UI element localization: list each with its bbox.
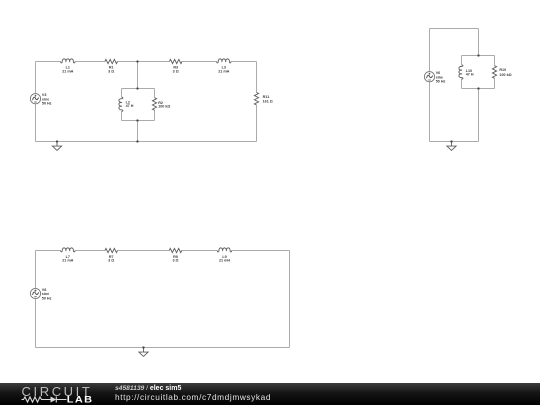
resistor R3 — [169, 59, 182, 63]
ground — [139, 348, 148, 357]
svg-text:50 Hz: 50 Hz — [436, 80, 446, 84]
svg-text:21 mH: 21 mH — [219, 259, 230, 263]
wire — [462, 55, 495, 57]
svg-text:LAB: LAB — [67, 395, 94, 405]
wire — [35, 62, 37, 94]
voltage source V6 — [424, 72, 434, 82]
node junction — [142, 346, 144, 348]
svg-text:21 mH: 21 mH — [218, 69, 229, 73]
inductor L2 — [119, 97, 123, 112]
resistor R11 — [254, 92, 258, 105]
svg-text:100 kΩ: 100 kΩ — [499, 73, 511, 77]
node junction — [136, 140, 138, 142]
wire — [231, 61, 256, 63]
node junction — [56, 140, 58, 142]
inductor L9 — [217, 248, 232, 252]
node junction — [136, 119, 138, 121]
wire — [256, 105, 258, 142]
svg-text:21 mH: 21 mH — [62, 259, 73, 263]
logo resistor squiggle — [22, 397, 51, 402]
resistor R1 — [105, 59, 118, 63]
svg-text:47 H: 47 H — [466, 73, 474, 77]
svg-text:3 Ω: 3 Ω — [108, 69, 114, 73]
wire — [75, 61, 105, 63]
wire — [494, 56, 496, 66]
resistor R10 — [492, 66, 496, 79]
wire — [118, 250, 170, 252]
inductor L10 — [459, 65, 463, 80]
wire — [429, 29, 431, 72]
wire — [478, 89, 480, 142]
wire — [289, 251, 291, 348]
node junction — [450, 140, 452, 142]
wire — [36, 250, 61, 252]
svg-text:R10: R10 — [499, 68, 506, 72]
wire — [75, 250, 105, 252]
ground — [447, 142, 456, 151]
wire — [461, 56, 463, 65]
wire — [35, 251, 37, 289]
inductor L7 — [61, 248, 76, 252]
svg-text:50 Hz: 50 Hz — [42, 296, 52, 300]
wire — [122, 120, 155, 122]
wire — [461, 79, 463, 88]
wire — [122, 88, 155, 90]
resistor R9 — [169, 248, 182, 252]
wire — [154, 110, 156, 121]
node junction — [136, 60, 138, 62]
wire — [36, 61, 61, 63]
svg-text:3 Ω: 3 Ω — [173, 69, 179, 73]
wire — [182, 61, 216, 63]
wire — [232, 250, 290, 252]
ground — [52, 142, 61, 151]
wire — [121, 112, 123, 121]
wire — [182, 250, 217, 252]
inductor L3 — [217, 59, 232, 63]
wire — [256, 62, 258, 93]
voltage source V8 — [30, 288, 40, 298]
svg-text:100 kΩ: 100 kΩ — [158, 104, 170, 108]
svg-text:3 Ω: 3 Ω — [108, 259, 114, 263]
resistor R2 — [152, 98, 156, 111]
inductor L1 — [61, 59, 76, 63]
node junction — [477, 87, 479, 89]
wire — [118, 61, 170, 63]
resistor R7 — [105, 248, 118, 252]
node junction — [136, 87, 138, 89]
wire — [35, 104, 37, 142]
svg-text:47 H: 47 H — [126, 104, 134, 108]
wire — [137, 121, 139, 142]
wire — [430, 28, 479, 30]
svg-text:161 Ω: 161 Ω — [263, 99, 273, 103]
wire — [36, 347, 290, 349]
svg-text:3 Ω: 3 Ω — [172, 259, 178, 263]
wire — [430, 141, 479, 143]
wire — [137, 62, 139, 89]
wire — [478, 29, 480, 56]
voltage source V3 — [30, 94, 40, 104]
wire — [154, 89, 156, 98]
wire — [494, 78, 496, 88]
wire — [36, 141, 257, 143]
wire — [35, 299, 37, 348]
svg-text:21 mH: 21 mH — [62, 69, 73, 73]
wire — [462, 88, 495, 90]
svg-text:50 Hz: 50 Hz — [42, 102, 52, 106]
logo diode — [51, 397, 57, 403]
wire — [429, 82, 431, 142]
node junction — [477, 54, 479, 56]
wire — [121, 89, 123, 97]
